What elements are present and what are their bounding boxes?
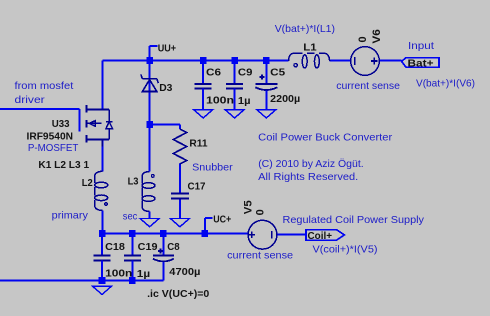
svg-text:V(bat+)*I(L1): V(bat+)*I(L1)	[275, 23, 335, 35]
svg-text:C17: C17	[188, 181, 206, 193]
svg-text:R11: R11	[189, 138, 207, 150]
svg-text:IRF9540N: IRF9540N	[27, 130, 74, 142]
svg-text:1µ: 1µ	[137, 268, 150, 280]
svg-text:2200µ: 2200µ	[270, 93, 300, 105]
svg-text:UC+: UC+	[213, 213, 231, 225]
svg-text:L1: L1	[303, 42, 317, 54]
svg-text:sec: sec	[123, 211, 138, 223]
svg-text:primary: primary	[52, 210, 89, 222]
svg-text:0: 0	[254, 209, 266, 215]
svg-text:(C) 2010 by Aziz Ögüt.: (C) 2010 by Aziz Ögüt.	[258, 158, 364, 170]
svg-text:Input: Input	[408, 40, 434, 52]
svg-text:100n: 100n	[105, 267, 132, 279]
svg-text:current sense: current sense	[336, 80, 400, 92]
svg-text:Coil Power Buck Converter: Coil Power Buck Converter	[258, 132, 393, 144]
svg-text:driver: driver	[15, 94, 46, 106]
svg-text:C8: C8	[167, 241, 180, 253]
svg-text:L2: L2	[82, 177, 93, 189]
svg-text:current sense: current sense	[227, 250, 293, 262]
svg-text:C6: C6	[206, 67, 221, 79]
svg-text:from mosfet: from mosfet	[15, 80, 74, 92]
svg-text:4700µ: 4700µ	[169, 266, 200, 278]
svg-text:0: 0	[357, 36, 369, 42]
svg-text:.ic V(UC+)=0: .ic V(UC+)=0	[147, 288, 209, 300]
svg-text:D3: D3	[159, 82, 172, 94]
svg-text:P-MOSFET: P-MOSFET	[28, 142, 79, 154]
svg-text:V(coil+)*I(V5): V(coil+)*I(V5)	[313, 244, 378, 256]
svg-text:Snubber: Snubber	[192, 162, 233, 174]
svg-text:Coil+: Coil+	[308, 230, 333, 242]
svg-text:V(bat+)*I(V6): V(bat+)*I(V6)	[416, 78, 475, 90]
svg-text:UU+: UU+	[158, 42, 176, 54]
svg-text:C5: C5	[270, 67, 285, 79]
svg-text:Bat+: Bat+	[408, 57, 434, 69]
svg-text:K1 L2 L3 1: K1 L2 L3 1	[38, 159, 89, 171]
svg-text:All Rights Reserved.: All Rights Reserved.	[258, 171, 358, 183]
svg-text:1µ: 1µ	[238, 95, 251, 107]
svg-text:L3: L3	[128, 176, 139, 188]
svg-text:C18: C18	[105, 241, 125, 253]
svg-text:100n: 100n	[206, 94, 234, 106]
svg-text:Regulated Coil Power Supply: Regulated Coil Power Supply	[283, 214, 425, 226]
svg-text:V6: V6	[371, 29, 383, 44]
svg-text:C9: C9	[238, 67, 253, 79]
svg-text:U33: U33	[52, 118, 70, 130]
svg-text:C19: C19	[138, 241, 158, 253]
svg-text:V5: V5	[243, 200, 255, 214]
